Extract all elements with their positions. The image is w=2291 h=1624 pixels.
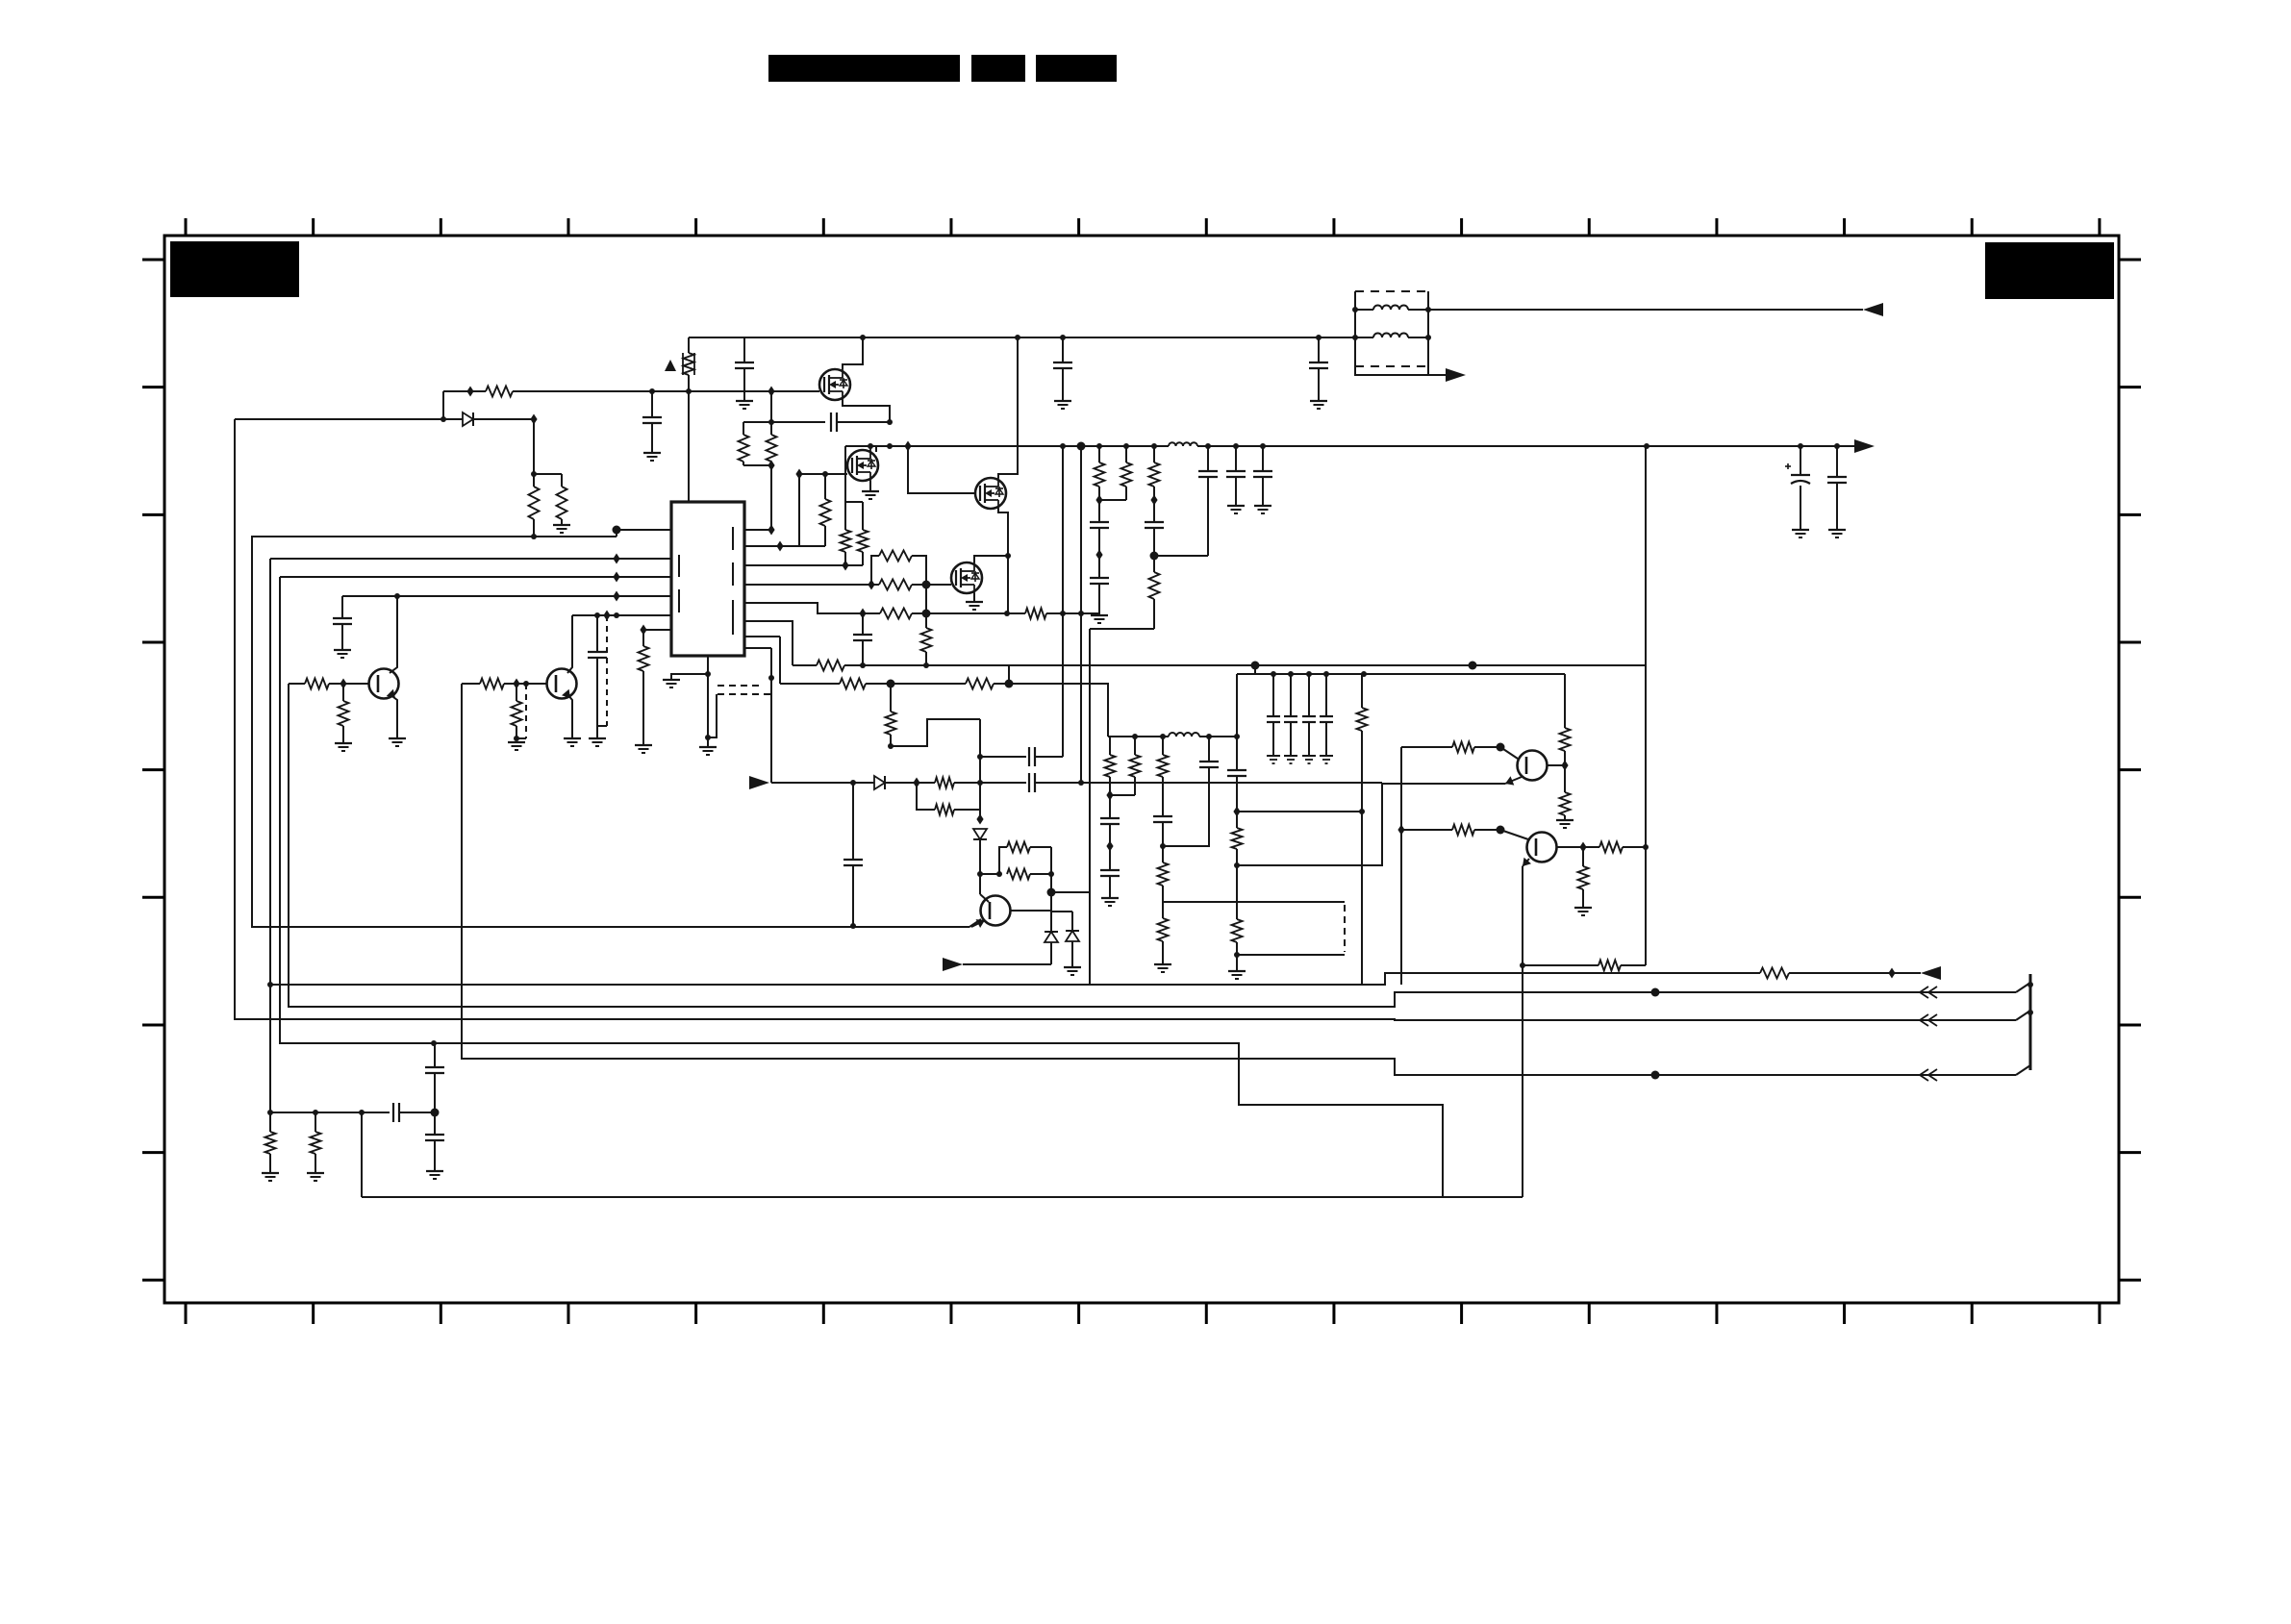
junction diamond 1019,852: [976, 814, 983, 825]
wire loop a: [980, 873, 999, 875]
wire Q6 emitter: [567, 694, 572, 738]
junction diamond 555,436: [530, 414, 537, 425]
capacitor C9: [1090, 578, 1109, 584]
ground: [1556, 820, 1573, 828]
wire 1154 dn3: [1109, 876, 1111, 898]
wire 555-584 bridge: [534, 473, 562, 475]
wire cap stem 678: [651, 391, 653, 417]
wire Q8 base b: [1474, 746, 1500, 748]
capacitor C13: [1100, 818, 1120, 824]
chevron B5: [1920, 987, 1937, 998]
wire 897 cap dn: [862, 640, 864, 665]
wire y900 U-turn: [1237, 783, 1382, 865]
wire top rail: [689, 337, 1355, 338]
wire diode to diamond: [473, 418, 534, 420]
wire Q3 drain: [998, 337, 1018, 478]
node 905,464: [868, 443, 873, 449]
node 641,551: [613, 526, 621, 535]
ground: [643, 453, 661, 461]
node 1093,928: [1047, 888, 1056, 897]
wire 1105 vert: [1062, 446, 1064, 757]
node 1324,701: [1271, 671, 1276, 677]
resistor R17: [935, 778, 954, 788]
wire loop d: [1030, 873, 1051, 875]
wire T1 w1 left lead: [1355, 309, 1373, 311]
resistor R24: [1121, 462, 1132, 487]
wire 555 dn: [533, 519, 535, 537]
wire y1004: [1523, 964, 1599, 966]
node at 461,436: [441, 416, 446, 422]
capacitor C7: [1145, 522, 1164, 528]
wire 452 dn: [434, 1112, 436, 1135]
junction diamond 802,407: [768, 387, 774, 397]
capacitor C15: [1153, 816, 1172, 822]
wire cap dn: [1272, 722, 1274, 756]
capacitor C16: [1199, 762, 1219, 767]
wire y1004 b: [1621, 964, 1646, 966]
wire cap stem: [1062, 337, 1064, 362]
MOSFET Q4: [951, 561, 982, 595]
wire 1154 dn: [1109, 777, 1111, 818]
capacitor C3: [853, 635, 872, 640]
node 1910,464: [1834, 443, 1840, 449]
MOSFET Q1: [819, 367, 850, 402]
wire 811 drop: [779, 637, 781, 684]
wire join 621-631: [597, 725, 607, 727]
node 858,493: [822, 471, 828, 477]
wire 858 lower lead: [824, 526, 826, 546]
wire fuse-res bottom lead: [688, 375, 690, 501]
wire Q6 collector: [567, 615, 572, 673]
wire Q9 emitter diag: [1523, 859, 1529, 866]
wire T1 w2 right lead: [1408, 337, 1428, 338]
wire bus B2 horiz: [270, 973, 1760, 985]
wire y993: [1237, 954, 1345, 956]
node 1019,787: [977, 754, 983, 760]
wire bus y692 b: [844, 664, 1646, 666]
capacitor C17: [1227, 770, 1246, 776]
wire y814 e: [1035, 782, 1382, 784]
wire 537 dn: [516, 684, 517, 701]
wire left feed horizontal: [235, 418, 443, 420]
warning triangle marker: [665, 360, 676, 371]
transistor Q5: [369, 669, 399, 699]
resistor R4: [767, 435, 777, 462]
resistor R1: [486, 387, 513, 397]
node 1305,692: [1251, 662, 1260, 670]
wire 621 cap stem: [596, 615, 598, 652]
wire y439 right part: [837, 421, 890, 423]
wire dashed 631: [606, 615, 608, 726]
capacitor C6: [843, 860, 863, 865]
wire Q8 base diag: [1500, 747, 1518, 759]
ground: [663, 680, 680, 687]
wire IC pin right y551: [744, 529, 771, 531]
wire y578 to cap 1256: [1154, 555, 1208, 557]
wire top lead: [1162, 737, 1164, 755]
wire 1154 dn2: [1109, 824, 1111, 870]
capacitor C11: [1226, 471, 1246, 477]
MOSFET Q2: [847, 448, 878, 483]
wire IC pin y551: [617, 529, 671, 531]
resistor R3: [739, 435, 749, 462]
junction diamond 802,484: [768, 461, 774, 471]
node 555,558: [531, 534, 537, 539]
wire 1872 dn: [1800, 486, 1801, 530]
wire 1256 cap stem: [1207, 446, 1209, 471]
wire Q9 base diag: [1500, 830, 1528, 839]
wire IC pin y620: [342, 595, 671, 597]
wire Q6 base b: [504, 683, 546, 685]
wire res loop dn b: [954, 809, 980, 811]
node 1286,993: [1234, 952, 1240, 958]
wire bridge 879-897 y522: [845, 501, 863, 503]
wire 555 lead: [533, 474, 535, 487]
node 925,464: [887, 443, 893, 449]
wire Q9 emitter col: [1522, 866, 1523, 1197]
node 678,407: [649, 388, 655, 394]
wire 1313 dn: [1262, 477, 1264, 506]
junction diamond 897,638: [859, 609, 866, 619]
node 2111,1024: [2027, 982, 2033, 987]
wire 621 dn: [596, 658, 598, 738]
junction diamond 669,655: [640, 625, 646, 636]
junction diamond 1457,863: [1397, 825, 1404, 836]
wire IC pin y655: [643, 629, 671, 631]
zener diode D3: [973, 829, 987, 839]
wire 669 dn2: [642, 671, 644, 745]
wire y711 b: [866, 683, 966, 685]
ground: [335, 743, 352, 751]
resistor R14: [840, 679, 866, 689]
wire 1910 dn: [1836, 483, 1838, 530]
wire 357 dn: [342, 684, 344, 701]
wire 1457 col: [1400, 747, 1402, 985]
wire 1115 dn: [1071, 912, 1073, 931]
junction diamond 953,814: [913, 778, 919, 788]
ground: [553, 525, 570, 533]
ground: [1310, 401, 1327, 409]
wire 1093 col: [1050, 847, 1052, 932]
wire T1 right edge down: [1427, 337, 1429, 375]
node 1058,351: [1015, 335, 1020, 340]
wire 879 leg: [844, 446, 846, 530]
junction diamond 1154,880: [1106, 841, 1113, 852]
wire y938 line: [1163, 901, 1345, 903]
wire 1256 dn: [1207, 477, 1209, 556]
wire B3 join bar: [2016, 1011, 2030, 1020]
wire y928: [1051, 891, 1090, 893]
wire y814 d: [954, 782, 1026, 784]
node 281,1157: [267, 1110, 273, 1115]
wire IC pin y608 b: [912, 584, 951, 586]
diode D2: [874, 776, 885, 789]
wire 1124 vert: [1080, 446, 1082, 783]
capacitor C21: [425, 1135, 444, 1140]
ground: [1267, 756, 1280, 763]
capacitor C4: [1029, 773, 1035, 792]
node 1560,777: [1497, 743, 1505, 752]
wire 1093 dn: [1050, 942, 1052, 964]
wire bus B4 staircase: [280, 577, 1443, 1197]
wire riser 461: [442, 391, 444, 419]
node 887,814: [850, 780, 856, 786]
resistor R29: [1158, 918, 1169, 941]
node 621,640: [594, 612, 600, 618]
node 2111,1053: [2027, 1010, 2033, 1015]
resistor R13: [817, 661, 844, 671]
ground: [564, 738, 581, 746]
wire 1910 cap stem: [1836, 446, 1838, 477]
junction diamond 1143,520: [1095, 495, 1102, 506]
transformer T1 box: [1355, 291, 1428, 366]
node 1485,322: [1425, 307, 1431, 312]
junction diamond 631,640: [603, 611, 610, 621]
wire 1627 dn: [1564, 815, 1566, 820]
wire rail y1157 a: [270, 1112, 390, 1113]
junction diamond 1967,1012: [1888, 968, 1895, 979]
wire 963 dn2: [925, 652, 927, 665]
junction diamond 802,551: [768, 525, 774, 536]
junction diamond 641,600: [613, 572, 619, 583]
wire res loop up: [871, 556, 879, 585]
node 1200,578: [1150, 552, 1159, 561]
wire 802 col top: [770, 391, 772, 435]
node 1712,464: [1644, 443, 1649, 449]
arrow out top: [1863, 303, 1883, 316]
wire cap stem: [1318, 337, 1320, 362]
wire 897 cap stem: [862, 613, 864, 635]
wire B5 join bar: [2016, 983, 2030, 992]
wire Q5 base b: [329, 683, 369, 685]
resistor R31: [1232, 919, 1243, 942]
ground: [1574, 908, 1592, 915]
node 1171,464: [1123, 443, 1129, 449]
wire 1133 vert: [1089, 629, 1091, 985]
ground: [699, 747, 717, 755]
resistor R43: [305, 679, 329, 689]
arrow out mid rail: [1854, 439, 1875, 453]
node 1560,863: [1497, 826, 1505, 835]
wire cap stem: [1308, 674, 1310, 716]
resistor R8: [879, 580, 912, 590]
wire loop b: [999, 847, 1007, 874]
wire 461-505 y407: [443, 390, 486, 392]
wire cap stem: [743, 337, 745, 362]
junction diamond 537,711: [513, 679, 519, 689]
wire B1 diag: [969, 919, 981, 927]
wire 858 upper lead: [824, 474, 826, 499]
wire long return y1245: [362, 1196, 1523, 1198]
node 1711,881: [1643, 844, 1649, 850]
wire 1200 c: [1153, 599, 1155, 629]
wire y814 c: [917, 782, 935, 784]
node 926,776: [888, 743, 894, 749]
node 1256,464: [1205, 443, 1211, 449]
wire IC pin y646 step: [744, 621, 793, 665]
wire T1 w2 left lead: [1355, 337, 1373, 338]
node 1416,844: [1359, 809, 1365, 814]
wire 357 dn2: [342, 726, 344, 743]
chevron B6: [1920, 1069, 1937, 1081]
node 963,692: [923, 662, 929, 668]
wire Q4 drain: [974, 556, 1008, 562]
capacitor C14: [1100, 870, 1120, 876]
wire 328 dn2: [315, 1154, 316, 1173]
resistor R22: [1149, 572, 1160, 599]
resistor R15: [966, 679, 994, 689]
black label box top-left: [170, 241, 299, 297]
junction diamond 811,568: [776, 541, 783, 552]
wire 773 top lead: [743, 422, 744, 435]
wire bus B5 (Q5 coll drive): [289, 684, 2016, 1007]
capacitor C5: [1029, 747, 1035, 766]
resistor R23: [1095, 462, 1105, 487]
wire 1115 dn2: [1071, 941, 1073, 967]
wire 1286 col: [1236, 674, 1238, 770]
wire y844: [1237, 811, 1362, 812]
wire 1143 top: [1098, 446, 1100, 462]
wire T1 w1 right lead: [1408, 309, 1428, 311]
wire 584 lead: [561, 474, 563, 487]
wire dashed box edge: [1344, 905, 1346, 952]
resistor R45: [480, 679, 504, 689]
resistor R9: [879, 551, 912, 562]
node 1019,909: [977, 871, 983, 877]
resistor R27: [1158, 755, 1169, 777]
wire Q7 emitter diag: [971, 920, 985, 927]
diode D1: [463, 412, 473, 426]
node 1313,464: [1260, 443, 1266, 449]
node 1209,766: [1160, 734, 1166, 739]
node 963,638: [922, 610, 931, 618]
junction diamond 1286,844: [1233, 807, 1240, 817]
node 537,768: [514, 736, 519, 741]
ground: [1284, 756, 1297, 763]
ground: [1101, 898, 1119, 906]
wire 1257 cap stem: [1208, 737, 1210, 762]
resistor R38: [1599, 842, 1623, 853]
ground: [635, 745, 652, 753]
ground: [1054, 401, 1071, 409]
wire 1019 dn: [979, 839, 981, 894]
wire 1209 dn: [1162, 777, 1164, 816]
wire top lead: [1134, 737, 1136, 755]
node 1418,701: [1361, 671, 1367, 677]
ground: [508, 742, 525, 750]
wire IC pin y600: [280, 576, 671, 578]
capacitor C23 (polarized): [1785, 463, 1810, 484]
wire Q3 gate: [908, 446, 975, 493]
resistor R16: [886, 712, 896, 735]
wire loop c: [1030, 846, 1051, 848]
wire res loop dn: [917, 783, 935, 810]
resistor R42: [311, 1132, 321, 1154]
wire rail y766: [1108, 736, 1169, 737]
zener diode D4: [1045, 932, 1058, 942]
Q6 emitter arrow: [562, 689, 570, 698]
wire 1872 cap stem: [1800, 446, 1801, 475]
node 1583,1004: [1520, 962, 1525, 968]
node 1143,464: [1096, 443, 1102, 449]
wire Q8 collector: [1548, 764, 1565, 766]
node 802,705: [768, 675, 774, 681]
resistor R41: [265, 1132, 276, 1154]
ground: [426, 1171, 443, 1179]
wire bus B1: [252, 537, 969, 927]
wire 1049 riser: [1008, 665, 1010, 684]
node 1286,766: [1234, 734, 1240, 739]
wire bus B6 (Q6 base): [462, 684, 2016, 1075]
wire 1646 dn2: [1582, 889, 1584, 908]
wire 1200 a: [1153, 487, 1155, 522]
resistor R49: [557, 487, 567, 519]
wire IC pin y581: [270, 558, 671, 560]
capacitor C8: [1090, 522, 1109, 528]
wire Q4 source: [973, 593, 975, 602]
wire 897 leg: [862, 502, 864, 530]
wire Q9 base line: [1401, 829, 1452, 831]
wire Q5 emitter: [390, 694, 397, 738]
wire rail y766 b: [1199, 736, 1237, 737]
wire T1 bottom lead: [1355, 366, 1455, 375]
node 1124,638: [1078, 611, 1084, 616]
capacitor: [735, 362, 754, 368]
wire dashed b: [718, 693, 771, 695]
inductor L2: [1169, 733, 1199, 737]
wire 1200 chain top: [1153, 446, 1155, 462]
inductor L1: [1169, 442, 1197, 446]
capacitor: [1267, 716, 1280, 722]
wire 1093-1115 bridge: [1051, 911, 1072, 912]
node 641,640: [614, 612, 619, 618]
wire y814 b: [885, 782, 917, 784]
node 1039,909: [996, 871, 1002, 877]
node 926,711: [887, 680, 895, 688]
wire 1143 b: [1098, 528, 1100, 578]
wire 1143 c: [1098, 584, 1100, 615]
node 376,1157: [359, 1110, 365, 1115]
arrow out B2: [1921, 966, 1941, 980]
wire 452 col up: [434, 1043, 436, 1067]
wire 1313 cap stem: [1262, 446, 1264, 471]
node 1093,909: [1048, 871, 1054, 877]
node 1286,900: [1234, 862, 1240, 868]
transistor Q7: [981, 896, 1011, 926]
node 281,1024: [267, 982, 273, 987]
node 1049,711: [1005, 680, 1014, 688]
resistor R32: [1357, 708, 1368, 731]
wire cap dn: [1290, 722, 1292, 756]
resistor R28: [1158, 862, 1169, 886]
node 1124,464: [1077, 442, 1086, 451]
wire rail y1157 b: [399, 1112, 435, 1113]
ground: [1228, 971, 1246, 979]
wire 802 drop: [770, 648, 772, 783]
junction diamond 944,464: [904, 441, 911, 452]
resistor R6: [841, 530, 851, 552]
ground: [1828, 530, 1846, 537]
wire IC pin y662: [744, 636, 780, 637]
wire IC pin y674: [744, 647, 771, 649]
wire Q2 drain: [875, 446, 877, 452]
wire 1019 col: [979, 719, 981, 819]
capacitor: [1284, 716, 1297, 722]
ground: [1064, 967, 1081, 975]
node 1342,701: [1288, 671, 1294, 677]
wire res loop down: [912, 556, 926, 585]
wire Q2 gate: [799, 473, 847, 475]
